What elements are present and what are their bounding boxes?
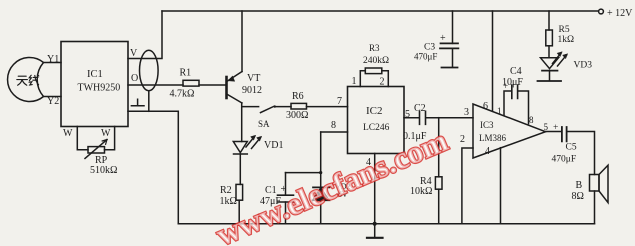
svg-text:8: 8 bbox=[529, 115, 534, 125]
svg-text:W: W bbox=[63, 128, 73, 139]
svg-text:R3: R3 bbox=[369, 43, 380, 53]
svg-text:R5: R5 bbox=[559, 25, 570, 35]
svg-text:4: 4 bbox=[485, 146, 490, 157]
diode VD2 6V (zener) bbox=[313, 186, 330, 188]
wire IC2 pin8 bbox=[321, 131, 348, 133]
wire VD1 to R2 bbox=[239, 154, 241, 184]
wire IC2 pin4 bbox=[374, 154, 376, 224]
wire speaker to rail bbox=[594, 191, 596, 224]
capacitor C1 47u bbox=[278, 195, 294, 202]
svg-text:5: 5 bbox=[544, 122, 549, 132]
svg-text:300Ω: 300Ω bbox=[286, 110, 308, 121]
node +12V terminal bbox=[599, 9, 604, 14]
capacitor C4 10u bbox=[512, 85, 518, 99]
watermark www.elecfans.com bbox=[211, 122, 453, 246]
LED VD1 bbox=[233, 142, 247, 153]
svg-text:IC2: IC2 bbox=[366, 105, 383, 117]
capacitor C2 0.1u bbox=[420, 111, 426, 124]
wire V-pin riser bbox=[128, 11, 162, 59]
svg-text:9012: 9012 bbox=[242, 85, 262, 96]
svg-text:–: – bbox=[136, 54, 141, 62]
svg-text:+: + bbox=[503, 81, 508, 91]
wire IC2 pin8 drop to VD2 bbox=[320, 132, 322, 187]
svg-text:C2: C2 bbox=[414, 103, 426, 114]
svg-text:8: 8 bbox=[331, 120, 336, 131]
svg-text:5: 5 bbox=[405, 109, 410, 120]
wire VT collector to VD1 bbox=[241, 103, 243, 142]
svg-text:LC246: LC246 bbox=[363, 123, 390, 133]
node C1/VD2 junction bbox=[319, 171, 322, 174]
wire O-pin to R1 bbox=[128, 84, 183, 86]
svg-text:240kΩ: 240kΩ bbox=[363, 56, 389, 66]
op-amp IC1 TWH9250 box bbox=[61, 42, 128, 127]
svg-text:6: 6 bbox=[483, 101, 488, 112]
svg-text:510kΩ: 510kΩ bbox=[90, 165, 117, 176]
wire IC3 pin2 to ground bbox=[462, 148, 473, 224]
svg-text:1: 1 bbox=[352, 76, 357, 87]
svg-text:8Ω: 8Ω bbox=[572, 191, 584, 202]
resistor R6 300 bbox=[291, 103, 307, 109]
node cable ellipse bbox=[140, 50, 159, 91]
wire IC3 output bbox=[546, 131, 562, 133]
capacitor C5 470u bbox=[562, 127, 567, 141]
svg-text:2: 2 bbox=[380, 77, 385, 88]
svg-text:2: 2 bbox=[460, 134, 465, 145]
wire R6 to IC2 pin7 bbox=[307, 106, 348, 108]
op-amp IC3 LM386 triangle bbox=[473, 104, 546, 158]
resistor R1 4.7k bbox=[183, 80, 199, 86]
wire C2 to IC3 pin3 bbox=[426, 117, 473, 119]
svg-text:SA: SA bbox=[258, 119, 270, 129]
transistor VT 9012 bbox=[225, 77, 228, 98]
op-amp IC2 LC246 box bbox=[348, 87, 405, 154]
svg-text:1: 1 bbox=[497, 106, 502, 116]
svg-text:R6: R6 bbox=[292, 91, 304, 102]
svg-text:IC1: IC1 bbox=[87, 69, 103, 80]
ground C3 bbox=[442, 67, 458, 69]
wire C1 top stem bbox=[285, 173, 287, 196]
svg-text:470μF: 470μF bbox=[414, 52, 437, 62]
svg-text:R2: R2 bbox=[220, 185, 232, 196]
wire R2 to rail bbox=[238, 200, 240, 224]
svg-text:+: + bbox=[553, 123, 558, 133]
resistor R4 10k bbox=[438, 118, 440, 177]
resistor RP 510k (potentiometer) bbox=[77, 127, 88, 150]
svg-text:IC3: IC3 bbox=[480, 120, 494, 130]
wire IC3 pin1 bbox=[504, 91, 512, 115]
svg-text:B: B bbox=[576, 180, 583, 191]
wire C1 to VD2 node bbox=[286, 172, 321, 174]
svg-text:R1: R1 bbox=[180, 68, 192, 79]
antenna bbox=[8, 58, 44, 102]
wire IC1 ground to bottom rail bbox=[128, 111, 178, 223]
svg-text:LM386: LM386 bbox=[479, 133, 507, 143]
svg-text:+ 12V: + 12V bbox=[607, 8, 633, 19]
svg-text:W: W bbox=[101, 128, 111, 139]
resistor R3 240k bbox=[360, 71, 365, 87]
svg-text:4.7kΩ: 4.7kΩ bbox=[170, 89, 195, 100]
wire IC2 pin5 to C2 bbox=[404, 117, 419, 119]
wire IC3 pin6 riser bbox=[492, 11, 494, 111]
wire top +12V rail bbox=[162, 10, 598, 12]
resistor R2 1k bbox=[236, 184, 243, 200]
svg-text:1kΩ: 1kΩ bbox=[220, 196, 237, 207]
svg-text:Y1: Y1 bbox=[47, 54, 59, 65]
svg-text:1kΩ: 1kΩ bbox=[558, 35, 575, 45]
ground main bbox=[373, 222, 377, 226]
resistor R5 1k bbox=[548, 11, 550, 30]
svg-text:C4: C4 bbox=[510, 66, 522, 77]
label ground pin symbol bbox=[131, 99, 144, 106]
svg-text:470μF: 470μF bbox=[552, 155, 577, 165]
svg-text:O: O bbox=[131, 73, 138, 84]
svg-text:TWH9250: TWH9250 bbox=[78, 83, 121, 94]
svg-text:Y2: Y2 bbox=[47, 96, 59, 107]
wire Y2 bbox=[44, 96, 62, 98]
LED VD3 bbox=[541, 58, 559, 69]
svg-text:+: + bbox=[440, 33, 446, 44]
svg-text:VD3: VD3 bbox=[574, 61, 593, 71]
wire IC3 pin8 bbox=[518, 91, 529, 124]
svg-text:7: 7 bbox=[337, 96, 342, 107]
speaker B 8ohm bbox=[590, 175, 600, 192]
label 天线 (antenna) drawn as strokes bbox=[17, 75, 39, 86]
wire IC3 pin4 to ground bbox=[500, 148, 502, 224]
svg-text:VD1: VD1 bbox=[264, 140, 283, 151]
wire bottom ground rail bbox=[178, 223, 594, 225]
svg-text:VT: VT bbox=[247, 73, 260, 84]
svg-text:10kΩ: 10kΩ bbox=[410, 186, 432, 197]
wire ellipse stem to ground bbox=[148, 91, 150, 112]
wire Y1 bbox=[44, 62, 62, 64]
wire VT emitter to +12V rail bbox=[241, 11, 243, 72]
svg-text:3: 3 bbox=[464, 107, 469, 118]
wire R1 to VT base bbox=[199, 84, 225, 86]
capacitor C3 470u bbox=[452, 11, 454, 43]
wire C5 to speaker bbox=[567, 132, 595, 175]
svg-text:C5: C5 bbox=[566, 143, 577, 153]
switch SA bbox=[242, 106, 259, 108]
